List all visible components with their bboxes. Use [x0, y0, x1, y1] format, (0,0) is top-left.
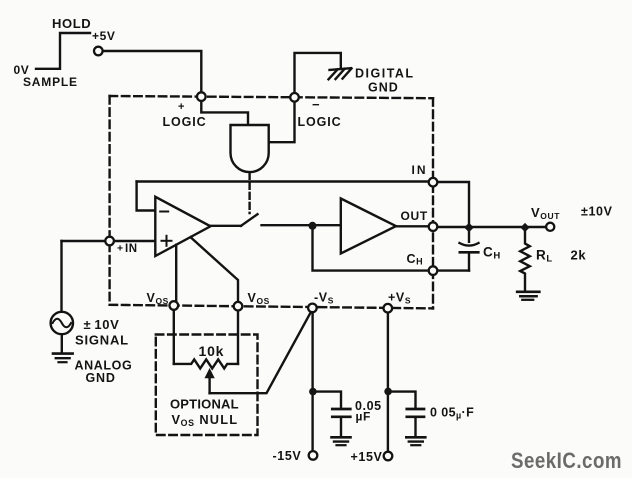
svg-text:IN: IN	[125, 243, 138, 255]
svg-text:GND: GND	[368, 81, 399, 95]
svg-text:+: +	[178, 101, 185, 113]
svg-text:± 10V: ± 10V	[84, 317, 120, 332]
svg-text:2k: 2k	[571, 248, 587, 263]
svg-text:GND: GND	[86, 371, 116, 385]
svg-text:+5V: +5V	[92, 29, 116, 43]
svg-text:DIGITAL: DIGITAL	[355, 67, 415, 81]
svg-text:IN: IN	[412, 163, 428, 177]
svg-text:10k: 10k	[199, 343, 225, 359]
svg-text:SeekIC.com: SeekIC.com	[511, 448, 622, 473]
svg-text:µF: µF	[356, 409, 371, 423]
svg-text:OUT: OUT	[401, 209, 428, 223]
svg-text:SAMPLE: SAMPLE	[23, 75, 78, 89]
svg-text:−: −	[312, 97, 320, 112]
svg-text:±10V: ±10V	[581, 205, 613, 219]
svg-text:LOGIC: LOGIC	[298, 115, 342, 129]
svg-text:LOGIC: LOGIC	[163, 115, 207, 129]
svg-text:HOLD: HOLD	[52, 16, 91, 31]
svg-text:OPTIONAL: OPTIONAL	[170, 397, 239, 412]
svg-text:+: +	[117, 243, 124, 255]
svg-text:+15V: +15V	[351, 450, 383, 464]
svg-text:SIGNAL: SIGNAL	[75, 332, 129, 347]
svg-text:-15V: -15V	[273, 449, 302, 463]
svg-text:0 05µ·F: 0 05µ·F	[430, 406, 474, 421]
